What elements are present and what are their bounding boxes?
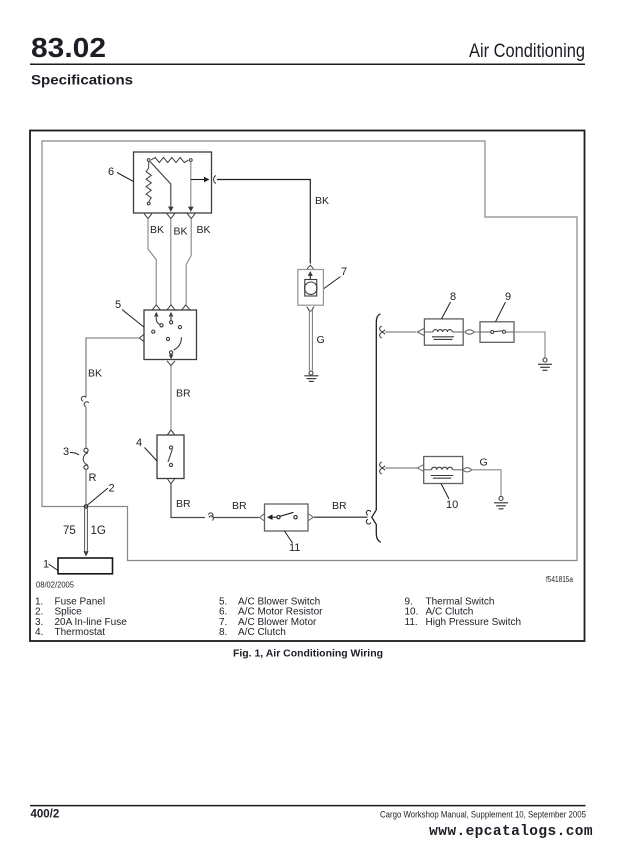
- svg-text:8: 8: [450, 291, 456, 303]
- svg-text:11: 11: [289, 542, 300, 554]
- svg-text:BK: BK: [88, 368, 102, 380]
- svg-text:7: 7: [341, 266, 347, 278]
- svg-text:BK: BK: [150, 224, 164, 236]
- svg-text:5: 5: [115, 299, 121, 311]
- svg-text:9: 9: [505, 291, 511, 303]
- svg-text:BR: BR: [232, 500, 247, 512]
- svg-text:BR: BR: [176, 498, 191, 510]
- svg-text:Cargo Workshop Manual, Supplem: Cargo Workshop Manual, Supplement 10, Se…: [380, 810, 586, 821]
- svg-text:10: 10: [446, 499, 458, 511]
- svg-text:High Pressure Switch: High Pressure Switch: [426, 617, 522, 628]
- svg-text:BK: BK: [315, 195, 329, 207]
- svg-text:4: 4: [136, 437, 142, 449]
- svg-text:G: G: [317, 334, 325, 346]
- svg-text:2: 2: [109, 483, 115, 495]
- svg-text:11.: 11.: [405, 617, 418, 628]
- svg-text:1G: 1G: [91, 525, 106, 537]
- svg-text:BR: BR: [176, 388, 191, 400]
- svg-text:83.02: 83.02: [31, 32, 106, 63]
- svg-text:Thermostat: Thermostat: [55, 627, 106, 638]
- svg-text:Specifications: Specifications: [31, 72, 133, 88]
- svg-text:Fig. 1, Air Conditioning Wirin: Fig. 1, Air Conditioning Wiring: [233, 649, 383, 660]
- svg-text:R: R: [89, 472, 97, 484]
- svg-text:www.epcatalogs.com: www.epcatalogs.com: [429, 824, 593, 840]
- svg-text:G: G: [480, 457, 488, 469]
- svg-text:8.: 8.: [219, 627, 227, 638]
- svg-text:6: 6: [108, 166, 114, 178]
- svg-text:400/2: 400/2: [31, 809, 60, 821]
- svg-text:A/C Clutch: A/C Clutch: [238, 627, 286, 638]
- svg-text:4.: 4.: [35, 627, 43, 638]
- svg-text:f541815a: f541815a: [546, 575, 573, 584]
- svg-text:BK: BK: [174, 226, 188, 238]
- svg-text:3: 3: [63, 446, 69, 458]
- svg-text:08/02/2005: 08/02/2005: [36, 580, 74, 590]
- svg-text:BR: BR: [332, 500, 347, 512]
- svg-text:1: 1: [43, 559, 49, 571]
- svg-text:Air Conditioning: Air Conditioning: [469, 41, 585, 62]
- svg-text:BK: BK: [197, 224, 211, 236]
- svg-text:75: 75: [63, 525, 76, 537]
